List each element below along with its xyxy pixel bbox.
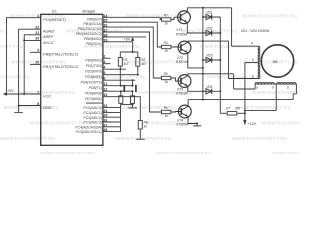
svg-text:WWW.RADIOPARTY.RU: WWW.RADIOPARTY.RU bbox=[0, 29, 6, 34]
svg-text:PD3(INT1): PD3(INT1) bbox=[85, 75, 102, 79]
svg-text:AGND: AGND bbox=[42, 30, 54, 34]
svg-text:b: b bbox=[252, 74, 254, 78]
svg-text:GND: GND bbox=[43, 106, 52, 110]
svg-text:8: 8 bbox=[37, 102, 39, 106]
svg-text:PB4(MISO): PB4(MISO) bbox=[84, 37, 102, 41]
svg-text:1k: 1k bbox=[165, 49, 169, 53]
svg-text:PD0(RXD): PD0(RXD) bbox=[85, 58, 102, 62]
svg-text:WWW.RADIOPARTY.RU: WWW.RADIOPARTY.RU bbox=[0, 136, 56, 141]
svg-text:KT829A: KT829A bbox=[176, 33, 188, 37]
svg-text:IC1: IC1 bbox=[52, 9, 57, 13]
svg-text:WWW.RADIOPARTY.RU: WWW.RADIOPARTY.RU bbox=[272, 151, 300, 154]
svg-text:VCC: VCC bbox=[43, 94, 51, 98]
svg-text:4k7: 4k7 bbox=[123, 62, 128, 66]
svg-text:M1: M1 bbox=[273, 60, 278, 64]
svg-text:23: 23 bbox=[103, 104, 107, 108]
svg-text:PC1(ADC1): PC1(ADC1) bbox=[83, 111, 101, 115]
svg-text:WWW.RADIOPARTY.RU: WWW.RADIOPARTY.RU bbox=[236, 105, 292, 110]
svg-text:WWW.RADIOPARTY.RU: WWW.RADIOPARTY.RU bbox=[0, 75, 31, 80]
svg-text:28: 28 bbox=[103, 128, 107, 132]
svg-text:PD4(XCK/T0): PD4(XCK/T0) bbox=[80, 80, 101, 84]
svg-text:25: 25 bbox=[103, 114, 107, 118]
svg-text:PC0(ADC0): PC0(ADC0) bbox=[83, 106, 101, 110]
svg-text:1k: 1k bbox=[165, 80, 169, 84]
svg-text:13: 13 bbox=[103, 93, 107, 97]
svg-text:4: 4 bbox=[103, 66, 105, 70]
svg-text:AREF: AREF bbox=[42, 35, 54, 39]
svg-text:15: 15 bbox=[103, 19, 107, 23]
svg-text:PB7(XTAL2/TOSC2): PB7(XTAL2/TOSC2) bbox=[43, 65, 79, 69]
svg-text:1k: 1k bbox=[165, 114, 169, 118]
svg-text:WWW.RADIOPARTY.RU: WWW.RADIOPARTY.RU bbox=[146, 121, 202, 126]
svg-text:VD1 - VD4 1N4004: VD1 - VD4 1N4004 bbox=[241, 29, 270, 33]
svg-text:10: 10 bbox=[35, 61, 39, 65]
svg-text:WWW.RADIOPARTY.RU: WWW.RADIOPARTY.RU bbox=[242, 13, 298, 18]
svg-text:5: 5 bbox=[103, 71, 105, 75]
svg-text:20: 20 bbox=[35, 37, 39, 41]
svg-text:R4: R4 bbox=[164, 41, 168, 45]
svg-text:22: 22 bbox=[35, 26, 39, 30]
svg-text:WWW.RADIOPARTY.RU: WWW.RADIOPARTY.RU bbox=[40, 151, 96, 154]
svg-text:PC6(RESET): PC6(RESET) bbox=[43, 18, 67, 22]
svg-text:b: b bbox=[287, 86, 289, 90]
svg-text:26: 26 bbox=[103, 119, 107, 123]
svg-text:PD6(AIN0): PD6(AIN0) bbox=[85, 91, 102, 95]
svg-text:PB1(OC1A): PB1(OC1A) bbox=[83, 22, 101, 26]
svg-text:Atmega8: Atmega8 bbox=[82, 9, 95, 13]
svg-text:9: 9 bbox=[37, 49, 39, 53]
svg-text:24: 24 bbox=[103, 109, 107, 113]
svg-text:18: 18 bbox=[103, 33, 107, 37]
svg-text:PB6(XTAL1/TOSC1): PB6(XTAL1/TOSC1) bbox=[43, 53, 79, 57]
svg-text:+5V: +5V bbox=[7, 89, 14, 93]
svg-text:WWW.RADIOPARTY.RU: WWW.RADIOPARTY.RU bbox=[156, 151, 212, 154]
svg-text:WWW.RADIOPARTY.RU: WWW.RADIOPARTY.RU bbox=[262, 121, 300, 126]
svg-text:VD2: VD2 bbox=[206, 27, 212, 31]
svg-text:21: 21 bbox=[35, 31, 39, 35]
svg-text:WWW.RADIOPARTY.RU: WWW.RADIOPARTY.RU bbox=[0, 44, 24, 49]
svg-text:14: 14 bbox=[103, 14, 107, 18]
svg-text:R5: R5 bbox=[164, 72, 168, 76]
svg-text:+5V: +5V bbox=[124, 38, 131, 42]
svg-text:a: a bbox=[256, 86, 258, 90]
svg-text:PD1(TXD): PD1(TXD) bbox=[86, 64, 102, 68]
svg-text:4k7: 4k7 bbox=[141, 62, 146, 66]
svg-text:3: 3 bbox=[103, 60, 105, 64]
svg-text:200: 200 bbox=[234, 107, 241, 111]
svg-text:AVCC: AVCC bbox=[42, 41, 54, 45]
svg-text:VD1: VD1 bbox=[206, 11, 212, 15]
svg-text:WWW.RADIOPARTY.RU: WWW.RADIOPARTY.RU bbox=[232, 136, 288, 141]
svg-text:PB3(MOSI/OC2): PB3(MOSI/OC2) bbox=[76, 32, 102, 36]
svg-text:VD3: VD3 bbox=[206, 54, 212, 58]
svg-text:PB0(ICP): PB0(ICP) bbox=[87, 17, 102, 21]
svg-text:11: 11 bbox=[103, 82, 107, 86]
svg-text:PD2(INT0): PD2(INT0) bbox=[85, 69, 102, 73]
svg-text:+12V: +12V bbox=[248, 122, 257, 126]
svg-text:PD5(T1): PD5(T1) bbox=[89, 86, 102, 90]
svg-text:VD4: VD4 bbox=[206, 85, 212, 89]
svg-text:WWW.RADIOPARTY.RU: WWW.RADIOPARTY.RU bbox=[116, 136, 172, 141]
svg-text:2: 2 bbox=[103, 55, 105, 59]
svg-text:R6: R6 bbox=[164, 106, 168, 110]
svg-text:PC5(ADC5/SCL): PC5(ADC5/SCL) bbox=[76, 130, 102, 134]
svg-text:KT829A: KT829A bbox=[176, 60, 188, 64]
svg-text:1: 1 bbox=[37, 14, 39, 18]
svg-text:19: 19 bbox=[103, 38, 107, 42]
svg-text:7: 7 bbox=[37, 90, 39, 94]
svg-text:0: 0 bbox=[272, 86, 274, 90]
svg-text:27: 27 bbox=[103, 123, 107, 127]
svg-text:PC2(ADC2): PC2(ADC2) bbox=[83, 116, 101, 120]
svg-text:R7: R7 bbox=[226, 107, 230, 111]
svg-text:1k: 1k bbox=[165, 22, 169, 26]
svg-text:PB2(SS/OC1B): PB2(SS/OC1B) bbox=[78, 27, 102, 31]
svg-text:0: 0 bbox=[252, 58, 254, 62]
svg-text:17: 17 bbox=[103, 29, 107, 33]
svg-text:16: 16 bbox=[103, 24, 107, 28]
svg-text:12: 12 bbox=[103, 88, 107, 92]
svg-text:1k: 1k bbox=[144, 125, 148, 129]
svg-text:6: 6 bbox=[103, 77, 105, 81]
svg-text:PC3(ADC3): PC3(ADC3) bbox=[83, 121, 101, 125]
svg-text:PC4(ADC4/SDA): PC4(ADC4/SDA) bbox=[75, 125, 102, 129]
svg-text:PB5(SCK): PB5(SCK) bbox=[86, 42, 102, 46]
svg-text:a: a bbox=[251, 41, 253, 45]
svg-text:KT829A: KT829A bbox=[176, 91, 188, 95]
svg-text:R3: R3 bbox=[164, 13, 168, 17]
svg-text:PD7(AIN1): PD7(AIN1) bbox=[85, 97, 102, 101]
svg-text:KT829A: KT829A bbox=[177, 122, 189, 126]
